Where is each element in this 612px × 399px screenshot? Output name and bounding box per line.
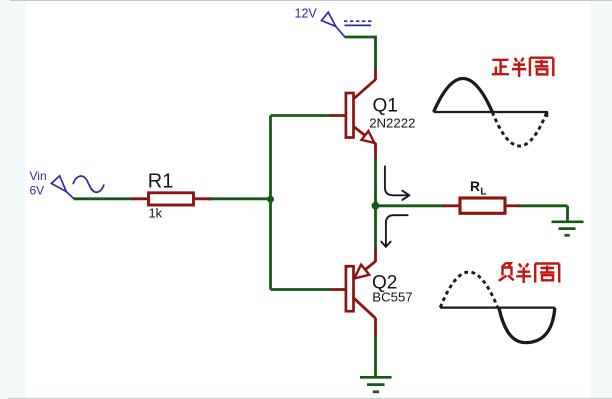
svg-text:L: L	[480, 186, 486, 197]
svg-text:6V: 6V	[30, 183, 45, 197]
svg-text:R1: R1	[148, 171, 174, 193]
svg-text:1k: 1k	[149, 206, 163, 221]
svg-text:R: R	[470, 179, 480, 194]
svg-text:Vin: Vin	[30, 169, 47, 183]
svg-text:BC557: BC557	[372, 289, 412, 304]
svg-text:2N2222: 2N2222	[369, 115, 415, 130]
svg-text:Q1: Q1	[373, 96, 398, 117]
svg-text:12V: 12V	[295, 6, 318, 20]
